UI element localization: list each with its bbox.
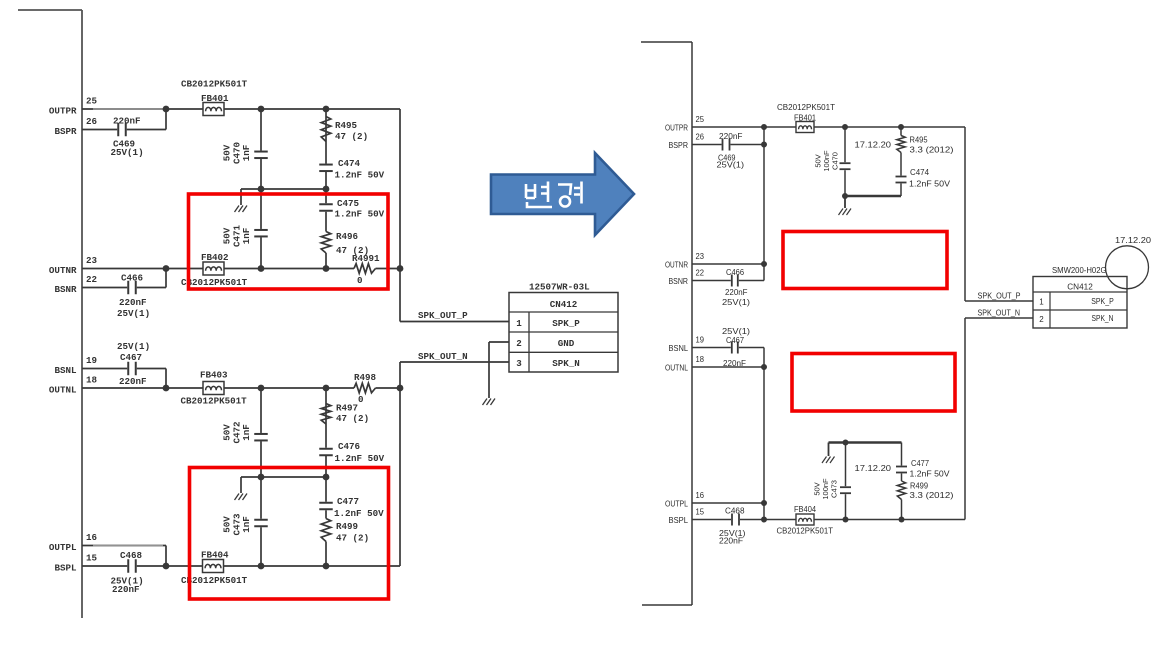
svg-text:OUTPL: OUTPL — [49, 542, 77, 553]
right wire BSNL pin19 to C467 — [692, 347, 764, 349]
svg-text:3.3 (2012): 3.3 (2012) — [910, 491, 954, 500]
right ground symbol bottom — [822, 457, 827, 464]
svg-text:25V(1): 25V(1) — [717, 161, 745, 170]
svg-text:CN412: CN412 — [1067, 283, 1093, 292]
capacitor C477 1.2nF 50V — [325, 477, 327, 519]
svg-text:23: 23 — [86, 255, 98, 266]
svg-text:19: 19 — [696, 335, 705, 344]
junction OUTPR/R495 — [323, 106, 330, 113]
right net SPK_OUT_P wire — [964, 127, 966, 301]
svg-text:17.12.20: 17.12.20 — [1115, 236, 1152, 245]
right wire OUTPR pin25 — [692, 126, 965, 128]
right capacitor C474 1.2nF 50V — [899, 176, 903, 184]
net SPK_OUT_P wire — [400, 321, 509, 323]
capacitor C467 220nF 25V(1) — [127, 367, 137, 371]
svg-text:25: 25 — [696, 115, 705, 124]
right junction OUTPR x764 — [761, 124, 767, 130]
right resistor R499 3.3 (2012) — [897, 481, 905, 500]
right capacitor C469 220nF 25V(1) — [722, 143, 731, 147]
change arrow (byeon-gyeong) — [491, 153, 634, 235]
svg-text:BSNR: BSNR — [54, 284, 77, 295]
svg-text:CB2012PK501T: CB2012PK501T — [181, 396, 248, 407]
svg-text:22: 22 — [696, 268, 705, 277]
svg-text:17.12.20: 17.12.20 — [855, 464, 892, 473]
svg-text:OUTNR: OUTNR — [49, 265, 77, 276]
svg-text:2: 2 — [516, 338, 522, 349]
svg-text:BSNL: BSNL — [54, 365, 77, 376]
node line y477 — [241, 476, 326, 478]
right wire BSNR pin22 to C466 — [692, 280, 764, 282]
svg-text:BSPL: BSPL — [669, 516, 689, 525]
right junction BSPL/R499 — [899, 517, 905, 523]
ground symbol CN412 — [483, 399, 488, 406]
junction BSPL/R499 — [323, 563, 330, 570]
capacitor C468 220nF 25V(1) — [127, 564, 137, 568]
svg-text:C468: C468 — [725, 507, 745, 516]
right junction gnd node bottom — [843, 440, 849, 446]
wire BSNR pin22 to C466 — [82, 287, 166, 289]
svg-text:C466: C466 — [726, 268, 745, 277]
svg-text:CN412: CN412 — [550, 299, 578, 310]
right capacitor C477 1.2nF 50V — [901, 443, 903, 482]
svg-text:C470: C470 — [831, 152, 840, 170]
ground wire from CN412 pin2 — [489, 341, 509, 343]
svg-text:1.2nF 50V: 1.2nF 50V — [335, 170, 385, 181]
junction OUTNL/C472 — [258, 385, 265, 392]
svg-text:SPK_P: SPK_P — [1091, 297, 1114, 306]
right net SPK_OUT_N wire — [965, 317, 1033, 319]
svg-text:25: 25 — [86, 96, 98, 107]
svg-text:220nF: 220nF — [119, 376, 147, 387]
wire OUTNR pin23 — [82, 268, 354, 270]
svg-text:SPK_P: SPK_P — [552, 318, 580, 329]
svg-text:1.2nF 50V: 1.2nF 50V — [909, 180, 951, 189]
resistor R497 47(2) — [325, 388, 327, 448]
svg-text:1nF: 1nF — [241, 516, 252, 533]
svg-text:C474: C474 — [910, 168, 930, 177]
svg-text:15: 15 — [696, 507, 705, 516]
svg-text:220nF: 220nF — [719, 537, 743, 546]
junction OUTNR/C471 — [258, 265, 265, 272]
junction OUTNL/C467 — [163, 385, 170, 392]
junction C474/node — [323, 186, 330, 193]
junction OUTNR/R496 — [323, 265, 330, 272]
svg-text:1.2nF 50V: 1.2nF 50V — [335, 209, 385, 220]
red highlight box 2 (L channel network) — [190, 468, 389, 600]
right junction gnd node top — [842, 193, 848, 199]
net SPK_OUT_N wire — [400, 361, 509, 363]
right resistor R495 3.3 (2012) — [900, 127, 902, 136]
svg-text:SPK_OUT_P: SPK_OUT_P — [978, 292, 1021, 301]
right junction BSPR x764 — [761, 142, 767, 148]
svg-text:OUTPR: OUTPR — [665, 123, 688, 132]
svg-text:25V(1): 25V(1) — [722, 327, 750, 336]
svg-text:C477: C477 — [337, 496, 359, 507]
right ground stub top — [844, 196, 846, 208]
right wire BSPL pin15 — [692, 519, 965, 521]
capacitor C466 220nF 25V(1) — [127, 286, 137, 290]
svg-text:CB2012PK501T: CB2012PK501T — [777, 103, 835, 112]
right ground node line top — [845, 195, 901, 197]
svg-text:1.2nF 50V: 1.2nF 50V — [334, 508, 384, 519]
svg-text:C467: C467 — [726, 336, 745, 345]
right junction OUTPR/R495 — [898, 124, 904, 130]
junction C472/node — [258, 474, 265, 481]
ground stub node L — [240, 477, 242, 493]
svg-text:CB2012PK501T: CB2012PK501T — [777, 527, 834, 536]
capacitor C474 1.2nF 50V — [324, 164, 328, 173]
junction OUTNR/right bus — [397, 265, 404, 272]
svg-text:SPK_OUT_P: SPK_OUT_P — [418, 310, 468, 321]
svg-text:SMW200-H02G: SMW200-H02G — [1052, 266, 1107, 275]
wire vertical right bus x400 lower — [399, 362, 401, 566]
node line y189 — [241, 188, 326, 190]
svg-text:0: 0 — [358, 394, 364, 405]
right wire BSPR pin26 to C469 — [692, 144, 764, 146]
svg-text:18: 18 — [696, 355, 705, 364]
svg-text:GND: GND — [558, 338, 575, 349]
svg-text:OUTNL: OUTNL — [49, 385, 77, 396]
right junction OUTPL x764 — [761, 500, 767, 506]
svg-text:19: 19 — [86, 355, 97, 366]
resistor R495 47(2) — [325, 109, 327, 164]
wire BSPL pin15 — [82, 565, 400, 567]
svg-text:C477: C477 — [911, 459, 930, 468]
svg-text:C474: C474 — [338, 158, 361, 169]
svg-text:2: 2 — [1039, 315, 1044, 324]
svg-text:C475: C475 — [337, 198, 360, 209]
right tie bus vertical lower x764 — [763, 348, 765, 520]
svg-text:R497: R497 — [336, 403, 358, 414]
svg-text:FB403: FB403 — [200, 370, 228, 381]
svg-text:26: 26 — [696, 132, 705, 141]
wire vertical right bus x400 upper — [399, 109, 401, 322]
svg-text:BSNL: BSNL — [669, 344, 689, 353]
svg-text:CB2012PK501T: CB2012PK501T — [181, 277, 248, 288]
svg-text:R498: R498 — [354, 372, 377, 383]
svg-text:25V(1): 25V(1) — [111, 147, 144, 158]
svg-text:25V(1): 25V(1) — [722, 298, 750, 307]
right tie bus vertical upper x764 — [763, 127, 765, 281]
svg-text:47 (2): 47 (2) — [336, 413, 369, 424]
svg-text:3: 3 — [516, 358, 522, 369]
svg-text:220nF: 220nF — [725, 288, 748, 297]
svg-text:0: 0 — [357, 275, 363, 286]
svg-text:SPK_N: SPK_N — [552, 358, 580, 369]
svg-text:47 (2): 47 (2) — [336, 533, 369, 544]
svg-text:1: 1 — [516, 318, 522, 329]
svg-text:C473: C473 — [830, 480, 839, 498]
svg-text:SPK_OUT_N: SPK_OUT_N — [978, 309, 1021, 318]
junction BSPL/C473 — [258, 563, 265, 570]
svg-text:23: 23 — [696, 252, 705, 261]
svg-text:12507WR-03L: 12507WR-03L — [529, 282, 590, 293]
ground symbol L — [235, 494, 240, 501]
svg-text:1.2nF 50V: 1.2nF 50V — [335, 453, 385, 464]
connector bus (left IC edge) — [18, 9, 82, 11]
capacitor C469 220nF 25V(1) — [117, 128, 127, 132]
right junction BSPL x764 — [761, 517, 767, 523]
svg-text:OUTPR: OUTPR — [49, 106, 77, 117]
right capacitor C468 220nF 25V(1) — [731, 518, 740, 522]
resistor R499 47(2) — [321, 519, 331, 542]
svg-text:47 (2): 47 (2) — [335, 131, 368, 142]
ground symbol R — [235, 206, 240, 213]
right junction OUTNL x764 — [761, 364, 767, 370]
right capacitor C467 220nF 25V(1) — [731, 346, 739, 350]
wire OUTPL pin16 — [82, 545, 166, 547]
svg-text:220nF: 220nF — [113, 116, 141, 127]
red highlight box 4 (removed L network) — [792, 354, 955, 412]
right ground stub bottom — [828, 443, 830, 457]
svg-text:OUTPL: OUTPL — [665, 499, 688, 508]
capacitor C473 1nF 50V — [260, 477, 262, 566]
red highlight box 3 (removed R network) — [783, 232, 947, 289]
right wire OUTPL pin16 — [692, 502, 764, 504]
ground stub node R — [240, 189, 242, 205]
junction OUTNL/right bus — [397, 385, 404, 392]
right capacitor C473 100nF 50V — [845, 443, 847, 520]
svg-text:C476: C476 — [338, 441, 360, 452]
right junction OUTPR/C470 — [842, 124, 848, 130]
svg-text:SPK_N: SPK_N — [1092, 314, 1114, 323]
svg-text:BSNR: BSNR — [669, 277, 689, 286]
svg-text:FB404: FB404 — [794, 505, 817, 514]
revision circle mark — [1106, 246, 1149, 289]
right ground symbol top — [839, 209, 844, 216]
svg-text:BSPL: BSPL — [54, 563, 77, 574]
junction OUTPR/C470 — [258, 106, 265, 113]
junction C470/node — [258, 186, 265, 193]
svg-text:3.3 (2012): 3.3 (2012) — [910, 146, 954, 155]
right ground node line bottom — [829, 441, 902, 443]
capacitor C475 1.2nF 50V — [325, 189, 327, 232]
junction OUTNL/R497 — [323, 385, 330, 392]
svg-text:BSPR: BSPR — [54, 126, 77, 137]
right wire OUTNL pin18 — [692, 366, 764, 368]
svg-text:R499: R499 — [910, 482, 929, 491]
junction OUTNR/C466 — [163, 265, 170, 272]
svg-text:OUTNR: OUTNR — [665, 260, 688, 269]
junction C476/node — [323, 474, 330, 481]
svg-text:CB2012PK501T: CB2012PK501T — [181, 79, 248, 90]
svg-text:R499: R499 — [336, 521, 358, 532]
svg-text:15: 15 — [86, 553, 98, 564]
connector bus right — [641, 41, 692, 43]
svg-text:1: 1 — [1039, 298, 1044, 307]
svg-text:18: 18 — [86, 375, 98, 386]
svg-text:BSPR: BSPR — [669, 141, 689, 150]
right capacitor C470 100nF 50V — [844, 127, 846, 196]
svg-text:1nF: 1nF — [241, 145, 252, 162]
junction BSPL/OUTPL — [163, 563, 170, 570]
korean text byeon-gyeong strokes — [526, 184, 535, 198]
svg-text:25V(1): 25V(1) — [117, 308, 150, 319]
svg-text:C467: C467 — [120, 352, 142, 363]
svg-text:C468: C468 — [120, 550, 143, 561]
junction node OUTPR/BSPR — [163, 106, 170, 113]
resistor R496 47(2) — [321, 232, 331, 254]
red highlight box 1 (R channel network) — [189, 194, 389, 289]
wire OUTPR pin25 — [82, 108, 400, 110]
capacitor C472 1nF 50V — [260, 388, 262, 477]
wire BSNL pin19 to C467 — [82, 368, 166, 370]
svg-text:R495: R495 — [910, 136, 929, 145]
svg-text:1.2nF 50V: 1.2nF 50V — [910, 470, 951, 479]
wire BSPR pin26 to C469 — [82, 129, 166, 131]
svg-text:220nF: 220nF — [112, 584, 140, 595]
svg-text:16: 16 — [86, 532, 97, 543]
right junction OUTNR x764 — [761, 261, 767, 267]
svg-text:C466: C466 — [121, 273, 143, 284]
right junction BSPL/C473 — [843, 517, 849, 523]
capacitor C476 1.2nF 50V — [324, 448, 328, 457]
svg-text:R495: R495 — [335, 120, 358, 131]
capacitor C470 1nF 50V — [260, 109, 262, 189]
capacitor C471 1nF 50V — [260, 189, 262, 269]
right capacitor C466 220nF 25V(1) — [731, 279, 739, 283]
right wire OUTNR pin23 — [692, 263, 764, 265]
svg-text:220nF: 220nF — [719, 132, 743, 141]
svg-text:SPK_OUT_N: SPK_OUT_N — [418, 351, 468, 362]
svg-text:25V(1): 25V(1) — [117, 341, 150, 352]
svg-text:16: 16 — [696, 491, 705, 500]
svg-text:1nF: 1nF — [241, 228, 252, 245]
svg-text:22: 22 — [86, 274, 97, 285]
svg-text:17.12.20: 17.12.20 — [855, 141, 892, 150]
svg-text:26: 26 — [86, 116, 97, 127]
wire OUTNL pin18 — [82, 387, 354, 389]
svg-text:1nF: 1nF — [241, 424, 252, 441]
svg-text:OUTNL: OUTNL — [665, 363, 688, 372]
svg-text:220nF: 220nF — [119, 297, 147, 308]
svg-text:R496: R496 — [336, 231, 358, 242]
